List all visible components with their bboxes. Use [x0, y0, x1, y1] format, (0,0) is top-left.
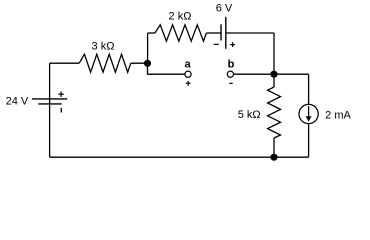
svg-text:2 kΩ: 2 kΩ: [169, 10, 192, 22]
wire: bottom rail: [50, 156, 309, 158]
label a: [185, 58, 192, 70]
wire: left riser to top rail: [147, 33, 149, 63]
resistor 2 kΩ: [155, 25, 206, 41]
node junction dot (left): [144, 60, 151, 67]
wire: 5 kΩ to bottom node: [273, 138, 275, 157]
wire: 6 V source to top-right corner: [226, 32, 274, 34]
svg-text:6 V: 6 V: [216, 2, 233, 14]
resistor 3 kΩ: [79, 54, 131, 72]
polarity - tick of 24 V source: [60, 108, 62, 113]
resistor 5 kΩ: [268, 87, 281, 138]
label 2 kΩ: [169, 10, 192, 22]
label 24 V: [6, 96, 29, 108]
label 5 kΩ: [238, 109, 261, 121]
polarity - at terminal b: [229, 82, 232, 84]
wire: terminal b to right node: [234, 73, 275, 75]
terminal a (open circle): [185, 71, 191, 77]
wire: right riser top rail down to node b row: [273, 33, 275, 74]
node junction dot (right, b row): [270, 71, 277, 78]
polarity + of 24 V source: [58, 91, 64, 97]
svg-text:a: a: [185, 58, 192, 70]
label 3 kΩ: [92, 40, 115, 52]
wire: right node to current source branch (top): [274, 73, 309, 75]
svg-text:b: b: [228, 59, 235, 71]
label b: [228, 59, 235, 71]
wire: stub from right node down to 5 kΩ: [273, 74, 275, 87]
polarity + at terminal a: [186, 81, 191, 86]
wire: top rail into 2 kΩ: [148, 32, 155, 34]
svg-text:5 kΩ: 5 kΩ: [238, 109, 261, 121]
current source 2 mA (circle): [299, 104, 318, 123]
svg-text:24 V: 24 V: [6, 96, 29, 108]
wire: 3 kΩ to node: [131, 62, 148, 64]
voltage source 6 V (battery plates): [221, 17, 226, 49]
svg-text:2 mA: 2 mA: [325, 110, 351, 122]
wire: 2 kΩ to 6 V source: [206, 32, 221, 34]
polarity - of 6 V source: [214, 43, 219, 45]
label 2 mA: [325, 110, 351, 122]
node junction dot (bottom): [270, 154, 277, 161]
polarity + of 6 V source: [230, 42, 235, 47]
wire: current source branch lower vertical: [308, 124, 310, 158]
terminal b (open circle): [227, 71, 233, 77]
wire: top-left horizontal into 3 kΩ: [50, 62, 80, 64]
voltage source 24 V (battery plates): [32, 99, 68, 104]
wire: left vertical (24V branch): [49, 63, 51, 157]
label 6 V: [216, 2, 233, 14]
current source arrow (downward): [306, 106, 312, 122]
svg-text:3 kΩ: 3 kΩ: [92, 40, 115, 52]
wire: current source branch upper vertical: [308, 74, 310, 104]
wire: stub from left node down to terminal a: [148, 63, 185, 74]
